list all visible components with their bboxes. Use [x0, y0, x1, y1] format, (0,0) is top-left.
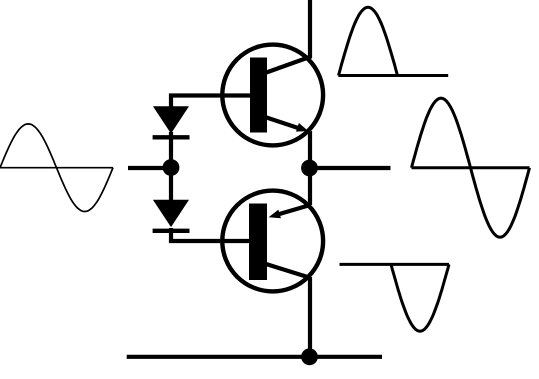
- node: bias junction: [163, 159, 180, 176]
- waveform: combined output sine: [412, 98, 530, 237]
- input sine waveform: [0, 124, 113, 212]
- node: bottom rail junction: [301, 348, 318, 365]
- node: output junction: [301, 160, 318, 177]
- wire: diode chain bottom to Q2 base: [171, 228, 252, 241]
- diode D2: [153, 200, 190, 231]
- transistor Q2 (PNP): [222, 191, 323, 292]
- wire: positive supply rail: [308, 0, 312, 58]
- wire: diode chain middle segment: [169, 132, 173, 201]
- waveform: Q2 negative half-cycle output: [340, 264, 450, 331]
- wire: Q1 emitter to output node: [308, 131, 312, 205]
- waveform: Q1 positive half-cycle output: [338, 7, 448, 75]
- wire: diode chain top to Q1 base: [171, 96, 252, 108]
- wire: Q2 collector to bottom rail: [308, 277, 312, 357]
- transistor Q1 (NPN): [222, 45, 323, 146]
- diode D1: [153, 106, 190, 137]
- wire: bottom rail: [127, 355, 382, 359]
- wire: input to bias node: [128, 166, 171, 170]
- wire: output: [310, 166, 391, 170]
